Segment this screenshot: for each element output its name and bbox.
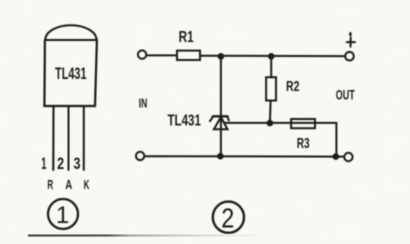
svg-text:R3: R3 bbox=[297, 135, 310, 152]
svg-text:R1: R1 bbox=[179, 29, 194, 46]
svg-text:2: 2 bbox=[57, 155, 64, 173]
svg-text:R: R bbox=[47, 177, 53, 192]
svg-text:IN: IN bbox=[139, 97, 148, 111]
svg-text:1: 1 bbox=[56, 202, 69, 229]
svg-text:R2: R2 bbox=[286, 78, 300, 95]
svg-text:3: 3 bbox=[74, 155, 81, 173]
svg-text:A: A bbox=[65, 177, 72, 192]
svg-text:1: 1 bbox=[41, 155, 46, 173]
svg-text:TL431: TL431 bbox=[55, 64, 87, 83]
svg-text:OUT: OUT bbox=[336, 86, 355, 102]
svg-text:K: K bbox=[84, 177, 90, 192]
svg-text:2: 2 bbox=[221, 202, 234, 233]
svg-text:TL431: TL431 bbox=[167, 113, 201, 130]
